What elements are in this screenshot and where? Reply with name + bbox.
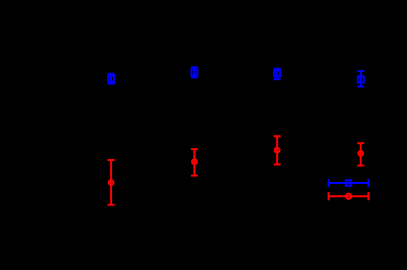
- red errorbar point R2: [191, 149, 198, 175]
- red errorbar point R4: [357, 143, 364, 165]
- red errorbar point R1: [108, 160, 115, 205]
- blue errorbar point B2: [191, 67, 198, 77]
- blue errorbar point B1: [108, 74, 115, 84]
- blue errorbar point B4: [357, 71, 364, 87]
- legend sample blue: [329, 179, 369, 187]
- red errorbar point R3: [274, 136, 281, 164]
- legend sample red: [329, 192, 369, 200]
- blue errorbar point B3: [274, 69, 281, 80]
